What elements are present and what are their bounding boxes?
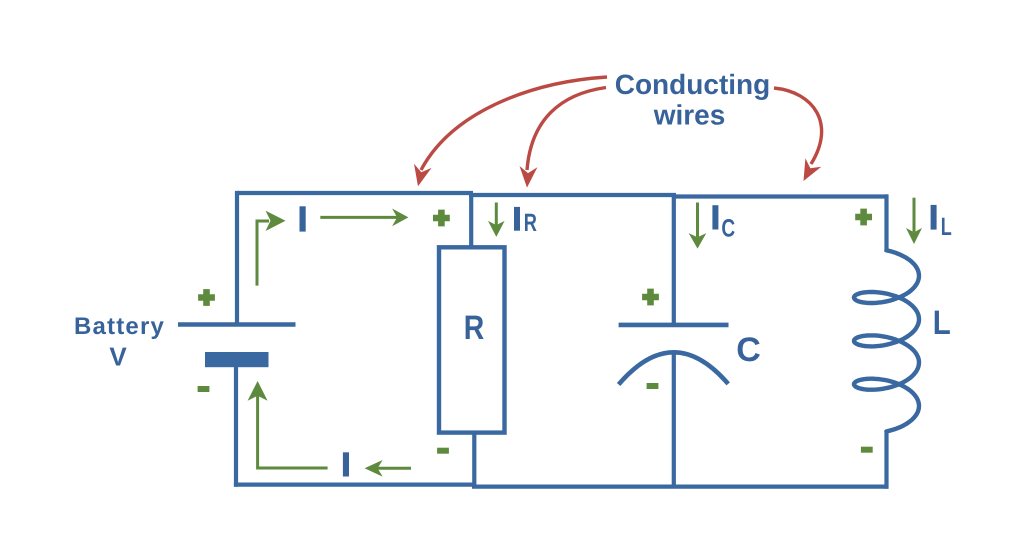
inductor minus sign bbox=[861, 447, 873, 453]
svg-text:L: L bbox=[933, 304, 951, 342]
wire top middle segment (node A to node B) bbox=[469, 193, 676, 197]
battery BT1 negative plate bbox=[205, 352, 269, 367]
resistor plus sign bbox=[433, 210, 450, 227]
annotation arrow to middle wire segment bbox=[520, 88, 607, 188]
battery minus sign bbox=[198, 386, 210, 392]
svg-text:Conducting: Conducting bbox=[615, 69, 771, 100]
wire capacitor bottom stub bbox=[672, 353, 676, 487]
wire inductor top stub bbox=[884, 194, 888, 252]
capacitor C bottom plate (curved) bbox=[619, 352, 729, 384]
wire left vertical lower bbox=[234, 360, 238, 487]
annotation arrow to right wire segment bbox=[774, 88, 822, 181]
current arrow I (top long) bbox=[320, 209, 408, 227]
wire bottom left segment bbox=[234, 483, 476, 487]
label Conducting wires bbox=[615, 69, 771, 131]
svg-text:C: C bbox=[721, 214, 735, 242]
resistor R body bbox=[439, 247, 505, 432]
capacitor C top plate bbox=[619, 323, 729, 328]
current arrow I (top left corner) bbox=[257, 211, 286, 286]
wire inductor bottom stub bbox=[884, 430, 888, 489]
current label IR bbox=[514, 207, 537, 237]
svg-text:Battery: Battery bbox=[74, 313, 165, 340]
svg-text:wires: wires bbox=[653, 100, 726, 131]
battery BT1 positive plate bbox=[178, 322, 296, 327]
wire resistor top stub bbox=[469, 193, 473, 249]
battery plus sign bbox=[198, 289, 215, 306]
current label IL bbox=[931, 205, 952, 241]
annotation arrow to left wire segment bbox=[414, 77, 607, 186]
inductor plus sign bbox=[855, 209, 872, 226]
current arrow I (bottom left-pointing) bbox=[365, 460, 411, 477]
wire top right segment (node B to inductor) bbox=[672, 194, 888, 198]
svg-text:L: L bbox=[941, 213, 952, 241]
battery label bbox=[74, 313, 165, 372]
current arrow IC bbox=[689, 203, 707, 249]
capacitor minus sign bbox=[647, 383, 659, 389]
wire capacitor top stub bbox=[672, 195, 676, 325]
svg-text:V: V bbox=[109, 342, 127, 372]
svg-text:R: R bbox=[524, 209, 537, 237]
inductor L coil bbox=[854, 250, 919, 431]
current arrow I (bottom up into battery) bbox=[248, 381, 328, 468]
wire resistor bottom stub bbox=[472, 431, 476, 487]
current label I (top) bbox=[300, 206, 306, 231]
svg-text:C: C bbox=[736, 331, 761, 369]
current label IC bbox=[712, 205, 735, 242]
current label I (bottom) bbox=[343, 452, 349, 476]
svg-text:R: R bbox=[464, 309, 485, 347]
current arrow IR bbox=[488, 203, 505, 237]
wire top left segment (battery to node A) bbox=[237, 191, 473, 195]
resistor minus sign bbox=[437, 448, 449, 454]
wire left vertical upper bbox=[235, 191, 239, 324]
current arrow IL bbox=[906, 198, 922, 244]
capacitor plus sign bbox=[642, 289, 659, 306]
wire bottom right segment bbox=[472, 485, 888, 489]
